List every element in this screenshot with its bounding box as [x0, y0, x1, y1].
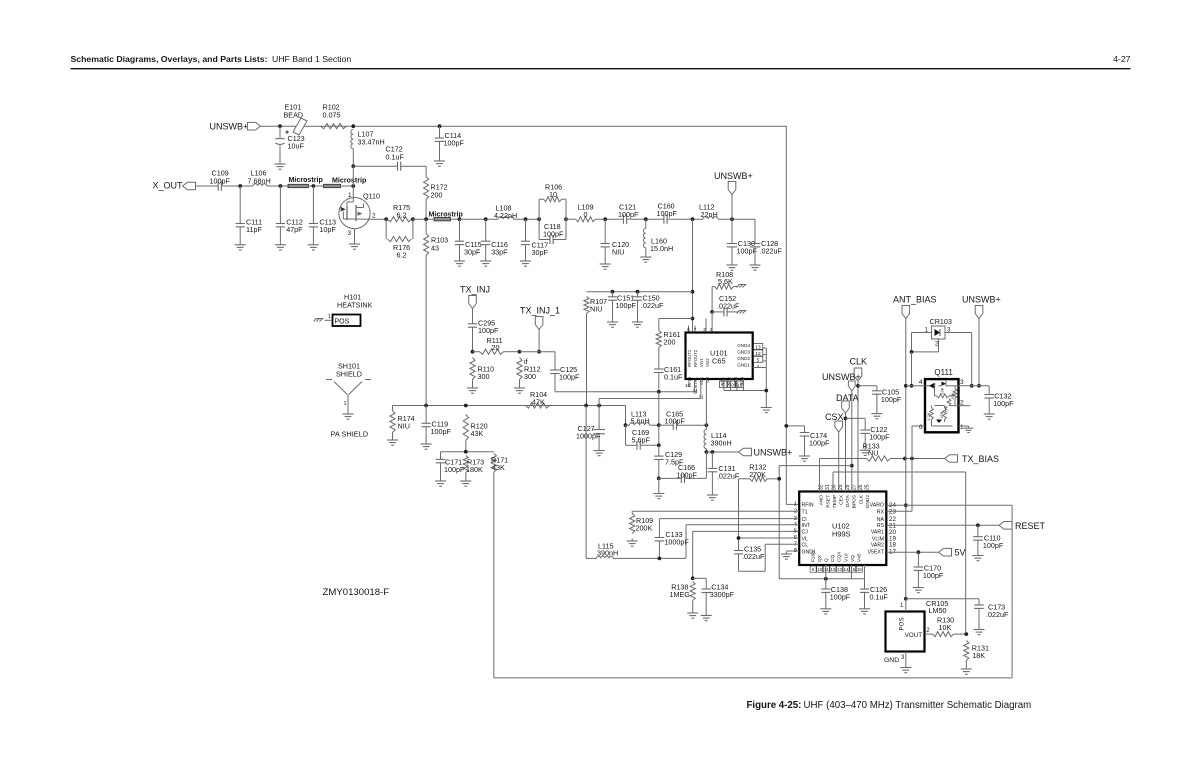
- resistor R173: [463, 456, 468, 479]
- wire TX_BIAS row left: [820, 458, 867, 460]
- svg-text:100pF: 100pF: [444, 465, 465, 474]
- svg-text:0.1uF: 0.1uF: [386, 153, 405, 162]
- junction: [784, 424, 788, 428]
- svg-text:300: 300: [524, 372, 536, 381]
- svg-text:23: 23: [889, 509, 896, 516]
- junction: [737, 536, 741, 540]
- junction: [351, 164, 355, 168]
- header rule: [71, 68, 1131, 70]
- ground C152: [737, 311, 747, 314]
- svg-text:100pF: 100pF: [543, 230, 564, 239]
- wire: [261, 125, 787, 127]
- ground CR105: [900, 665, 911, 673]
- junction: [537, 350, 541, 354]
- wire: [451, 218, 460, 220]
- transistor Q111: [925, 379, 959, 432]
- svg-text:BEAD: BEAD: [284, 111, 304, 120]
- ground C117: [520, 259, 531, 267]
- capacitor C112: [276, 186, 285, 242]
- svg-text:100pF: 100pF: [665, 417, 686, 426]
- svg-text:.022uF: .022uF: [717, 302, 740, 311]
- svg-text:100pF: 100pF: [677, 471, 698, 480]
- svg-text:UHF Band 1 Section: UHF Band 1 Section: [272, 54, 351, 64]
- junction: [524, 217, 528, 221]
- svg-text:1: 1: [960, 424, 964, 431]
- svg-text:Figure 4-25:: Figure 4-25:: [747, 700, 802, 711]
- pin numbers U101 right: [753, 344, 763, 350]
- wire U101 NC pins: [724, 348, 766, 405]
- wire CLK drop: [857, 381, 859, 492]
- svg-text:VD1: VD1: [699, 376, 704, 385]
- svg-text:TX_INJ: TX_INJ: [460, 285, 490, 295]
- svg-text:0.1uF: 0.1uF: [664, 373, 683, 382]
- ground C134: [701, 613, 712, 621]
- svg-text:RFOUT1: RFOUT1: [687, 349, 692, 367]
- wire: [267, 185, 288, 187]
- svg-text:NU: NU: [868, 449, 878, 458]
- node DATA tag: [842, 401, 850, 413]
- capacitor C117: [521, 219, 530, 258]
- wire U101 pin7 stub: [694, 326, 696, 333]
- junction: [624, 423, 628, 427]
- svg-text:RS: RS: [877, 523, 885, 529]
- svg-text:RFIN: RFIN: [802, 503, 814, 509]
- capacitor C105: [872, 386, 882, 411]
- ground C110: [972, 553, 983, 561]
- svg-text:TX_INJ_1: TX_INJ_1: [520, 306, 560, 316]
- node TX_BIAS tag: [945, 455, 958, 463]
- wire VARO row: [886, 504, 1012, 506]
- wire V5EXT row: [886, 551, 938, 553]
- wire CR105 pin3: [905, 652, 907, 666]
- inductor L160 coil: [643, 229, 645, 248]
- microstrip MS2: [324, 177, 367, 188]
- ground C123: [275, 162, 286, 170]
- junction: [977, 384, 981, 388]
- ground C120: [600, 262, 611, 270]
- resistor R138: [690, 582, 695, 611]
- svg-text:5.6K: 5.6K: [718, 277, 733, 286]
- wire: [566, 218, 576, 220]
- svg-text:200: 200: [664, 338, 676, 347]
- junction: [657, 390, 661, 394]
- svg-text:1: 1: [348, 192, 352, 199]
- microstrip MS1: [288, 176, 323, 188]
- wire: [786, 503, 799, 505]
- wire loop left: [493, 472, 495, 678]
- wire: [460, 218, 499, 220]
- svg-text:G2: G2: [705, 376, 710, 382]
- capacitor C150: [633, 292, 642, 320]
- junction: [603, 217, 607, 221]
- junction: [471, 350, 475, 354]
- svg-text:13: 13: [837, 567, 842, 572]
- ground C173: [974, 627, 985, 635]
- junction: [910, 350, 914, 354]
- op-amp U102: [799, 492, 886, 566]
- svg-text:VAR2: VAR2: [871, 543, 884, 549]
- wire: [626, 424, 630, 426]
- resistor R104: [526, 403, 550, 408]
- wire: [587, 291, 693, 293]
- ground C116: [480, 259, 491, 267]
- svg-text:100pF: 100pF: [431, 427, 452, 436]
- capacitor C116: [481, 219, 490, 258]
- node TX_INJ tag: [469, 296, 477, 309]
- resistor R112: [517, 358, 522, 386]
- capacitor C173: [974, 599, 984, 627]
- junction: [691, 217, 695, 221]
- svg-text:H99S: H99S: [832, 530, 851, 539]
- resistor R111: [473, 349, 520, 354]
- transistor Q110: [339, 186, 370, 242]
- junction: [597, 404, 601, 408]
- capacitor C189: [626, 425, 659, 450]
- node UNSWB+ tag L114: [739, 448, 752, 456]
- svg-text:0: 0: [584, 210, 588, 219]
- capacitor C166: [659, 474, 707, 483]
- wire: [685, 525, 687, 559]
- svg-text:3300pF: 3300pF: [710, 590, 735, 599]
- capacitor C113: [309, 186, 318, 242]
- inductor L108: [498, 217, 514, 220]
- svg-text:RESET: RESET: [1015, 521, 1046, 531]
- svg-text:VL: VL: [802, 536, 808, 542]
- ground C114: [434, 159, 445, 167]
- capacitor C132: [984, 386, 994, 412]
- svg-text:3: 3: [710, 327, 713, 332]
- svg-text:200: 200: [431, 191, 443, 200]
- svg-text:43: 43: [431, 244, 439, 253]
- svg-text:27: 27: [851, 484, 857, 490]
- svg-text:20: 20: [492, 343, 500, 352]
- junction: [850, 464, 854, 468]
- wire bias drop to L115: [585, 406, 587, 559]
- svg-text:390nH: 390nH: [597, 549, 618, 558]
- wire rail 391: [555, 391, 695, 393]
- inductor L160: [645, 219, 647, 228]
- svg-text:3: 3: [348, 230, 352, 237]
- svg-text:POS: POS: [899, 617, 906, 630]
- svg-text:CL: CL: [802, 543, 809, 549]
- svg-text:47pF: 47pF: [286, 225, 303, 234]
- svg-text:.022uF: .022uF: [742, 552, 765, 561]
- svg-text:BPOS: BPOS: [852, 495, 858, 508]
- junction: [691, 290, 695, 294]
- svg-text:V5EXT: V5EXT: [868, 549, 885, 555]
- capacitor C171: [436, 452, 446, 479]
- junction: [238, 184, 242, 188]
- svg-text:1: 1: [328, 314, 331, 320]
- pin numbers U102 bottom: [810, 566, 816, 572]
- svg-text:Q110: Q110: [363, 192, 380, 201]
- svg-text:16: 16: [685, 383, 691, 388]
- svg-text:QX: QX: [817, 554, 823, 562]
- junction: [464, 450, 468, 454]
- svg-text:100pF: 100pF: [993, 399, 1014, 408]
- junction: [691, 317, 695, 321]
- inductor L114: [705, 425, 707, 429]
- svg-text:25: 25: [865, 484, 871, 490]
- svg-text:200K: 200K: [636, 524, 653, 533]
- junction: [824, 577, 828, 581]
- junction: [644, 217, 648, 221]
- wire: [700, 379, 702, 399]
- node X_OUT tag: [183, 182, 196, 190]
- resistor R130: [925, 632, 967, 637]
- junction: [904, 503, 908, 507]
- svg-text:16: 16: [857, 567, 862, 572]
- svg-text:CLK: CLK: [850, 356, 868, 366]
- wire BPOS rail: [779, 465, 852, 467]
- wire Q111 pin6: [912, 426, 925, 459]
- svg-text:5V: 5V: [955, 548, 966, 558]
- svg-text:UNSWB+: UNSWB+: [210, 122, 249, 132]
- temperature sensor CR105: [886, 612, 925, 652]
- junction: [279, 184, 283, 188]
- wire: [352, 166, 354, 186]
- junction: [611, 290, 615, 294]
- ground R174: [387, 438, 398, 446]
- junction: [484, 217, 488, 221]
- svg-text:26: 26: [858, 484, 864, 490]
- svg-text:VG1: VG1: [699, 358, 704, 367]
- node UNSWB+ tag mid: [728, 182, 736, 195]
- svg-text:10: 10: [549, 190, 557, 199]
- ground C113: [308, 242, 319, 250]
- svg-text:DATA: DATA: [845, 494, 851, 507]
- svg-text:PA SHIELD: PA SHIELD: [331, 430, 369, 439]
- svg-text:0.075: 0.075: [323, 111, 341, 120]
- junction: [844, 417, 848, 421]
- svg-text:100pF: 100pF: [809, 439, 830, 448]
- junction: [970, 384, 974, 388]
- svg-text:5.6nH: 5.6nH: [631, 417, 650, 426]
- wire: [886, 510, 912, 512]
- svg-text:3: 3: [960, 379, 964, 386]
- svg-text:ZMY0130018-F: ZMY0130018-F: [323, 587, 390, 598]
- svg-text:2: 2: [372, 213, 376, 220]
- wire: [734, 286, 739, 288]
- wire: [308, 185, 323, 187]
- capacitor C115: [455, 219, 464, 258]
- ground Q110: [349, 242, 360, 250]
- inductor L114 coil: [704, 430, 706, 449]
- wire: [352, 149, 354, 167]
- wire: [705, 449, 707, 452]
- node ANT_BIAS tag: [902, 306, 910, 319]
- svg-text:100pF: 100pF: [478, 326, 499, 335]
- wire TEMP rail: [833, 471, 966, 473]
- junction: [903, 457, 907, 461]
- wire RX riser: [911, 459, 913, 512]
- svg-text:CJ: CJ: [802, 530, 809, 536]
- svg-text:100pF: 100pF: [881, 395, 902, 404]
- svg-text:NA: NA: [877, 517, 885, 523]
- ground C129 node: [653, 491, 664, 499]
- junction: [464, 404, 468, 408]
- svg-text:Microstrip: Microstrip: [289, 176, 324, 184]
- capacitor C122: [860, 418, 870, 447]
- wire CSX drop: [838, 432, 840, 492]
- junction: [764, 389, 768, 393]
- svg-text:10: 10: [817, 567, 822, 572]
- resistor R106: [539, 197, 566, 240]
- node RESET tag: [999, 522, 1012, 530]
- resistor R174: [390, 406, 395, 438]
- op-amp U101: [686, 333, 753, 380]
- svg-text:.022uF: .022uF: [717, 472, 740, 481]
- svg-text:30pF: 30pF: [464, 248, 481, 257]
- node UNSWB+ tag right: [975, 306, 983, 319]
- junction: [777, 477, 781, 481]
- svg-text:1: 1: [794, 502, 797, 508]
- svg-text:CQ: CQ: [830, 555, 836, 562]
- ground R112: [514, 386, 525, 394]
- node UNSWB+ tag: [248, 122, 261, 130]
- capacitor C110: [973, 525, 983, 553]
- capacitor C121: [619, 215, 633, 224]
- svg-text:Q: Q: [824, 558, 830, 562]
- junction: [636, 290, 640, 294]
- microstrip MS3: [429, 210, 464, 221]
- svg-text:.022uF: .022uF: [641, 301, 664, 310]
- capacitor C125: [550, 370, 560, 392]
- wire: [659, 318, 693, 320]
- inductor L112: [703, 217, 718, 219]
- svg-text:X_OUT: X_OUT: [153, 180, 184, 190]
- svg-text:100pF: 100pF: [559, 373, 580, 382]
- svg-text:100pF: 100pF: [444, 139, 465, 148]
- svg-text:100pF: 100pF: [737, 247, 758, 256]
- ground U101: [761, 405, 772, 413]
- svg-text:1000pF: 1000pF: [576, 432, 601, 441]
- svg-text:UNSWB+: UNSWB+: [962, 295, 1001, 305]
- wire: [370, 218, 387, 220]
- capacitor C109: [214, 181, 227, 191]
- wire: [514, 218, 540, 220]
- junction: [424, 404, 428, 408]
- wire: [705, 452, 707, 478]
- wire CI rail: [659, 518, 799, 520]
- wire: [891, 458, 945, 460]
- ground R131: [961, 667, 972, 675]
- ground C131: [707, 493, 718, 501]
- svg-text:11pF: 11pF: [246, 225, 262, 234]
- junction: [730, 217, 734, 221]
- ground R138: [687, 611, 698, 619]
- diode CR103: [932, 326, 946, 339]
- svg-text:GND2: GND2: [737, 356, 750, 361]
- svg-text:2: 2: [926, 628, 930, 634]
- ground C119: [421, 442, 432, 450]
- junction: [657, 423, 661, 427]
- svg-text:GND2: GND2: [865, 495, 871, 509]
- inductor L115: [597, 556, 614, 558]
- svg-text:14: 14: [844, 567, 849, 572]
- junction: [710, 310, 714, 314]
- ground C115: [454, 259, 465, 267]
- wire: [227, 185, 254, 187]
- wire: [711, 287, 713, 312]
- svg-text:7.68nH: 7.68nH: [248, 177, 271, 186]
- wire decouple bus: [779, 578, 864, 580]
- svg-text:UNSWB+: UNSWB+: [754, 448, 793, 458]
- capacitor C120: [601, 219, 610, 261]
- junction: [657, 477, 661, 481]
- svg-text:47K: 47K: [940, 411, 944, 418]
- capacitor C170: [914, 552, 924, 585]
- wire to C173: [906, 598, 979, 600]
- capacitor C174: [786, 426, 809, 454]
- svg-text:VOUT: VOUT: [905, 632, 922, 639]
- svg-text:390nH: 390nH: [711, 439, 732, 448]
- svg-text:300: 300: [478, 372, 490, 381]
- svg-text:4-27: 4-27: [1113, 54, 1131, 64]
- svg-text:VAR1: VAR1: [871, 530, 884, 536]
- ground C132: [984, 412, 995, 420]
- svg-text:Schematic Diagrams, Overlays,: Schematic Diagrams, Overlays, and Parts …: [71, 54, 268, 64]
- junction: [705, 450, 709, 454]
- ground C128: [750, 263, 761, 271]
- svg-text:6: 6: [687, 327, 690, 332]
- capacitor C131: [708, 452, 718, 493]
- svg-text:15.0nH: 15.0nH: [650, 244, 673, 253]
- svg-text:1MEG: 1MEG: [670, 590, 691, 599]
- resistor R175: [388, 217, 412, 222]
- svg-text:CEX: CEX: [839, 494, 845, 505]
- junction: [458, 217, 462, 221]
- capacitor C118: [539, 235, 566, 244]
- resistor R176: [386, 219, 413, 241]
- svg-text:12: 12: [830, 567, 835, 572]
- svg-text:33.47nH: 33.47nH: [358, 138, 385, 147]
- wire CR103 pin3: [945, 333, 972, 386]
- wire: [196, 185, 218, 187]
- wire RESET row: [886, 524, 999, 526]
- svg-text:RFOUT2: RFOUT2: [693, 349, 698, 367]
- svg-text:47K: 47K: [951, 392, 955, 399]
- ground C105: [871, 411, 882, 419]
- wire: [858, 385, 877, 387]
- wire ANT pin riser: [819, 459, 821, 492]
- svg-text:T1: T1: [802, 510, 808, 516]
- svg-text:GND3: GND3: [737, 350, 750, 355]
- svg-text:VLIM: VLIM: [872, 536, 884, 542]
- wire RF feed vertical: [785, 126, 787, 504]
- wire: [441, 451, 494, 453]
- wire: [625, 406, 627, 426]
- junction: [705, 423, 709, 427]
- junction: [711, 450, 715, 454]
- svg-text:VQ: VQ: [850, 555, 856, 562]
- ground R173: [460, 479, 471, 487]
- svg-text:NIU: NIU: [612, 248, 624, 257]
- capacitor C126: [860, 579, 869, 607]
- svg-text:VARO: VARO: [870, 503, 884, 509]
- svg-text:4.22nH: 4.22nH: [494, 211, 517, 220]
- svg-text:TEMP: TEMP: [832, 495, 838, 508]
- svg-text:CR103: CR103: [930, 317, 952, 326]
- junction: [657, 443, 661, 447]
- ground R109: [627, 539, 638, 547]
- svg-text:6.2: 6.2: [397, 251, 407, 260]
- wire U101 input drop: [692, 219, 694, 332]
- svg-text:10pF: 10pF: [319, 225, 336, 234]
- capacitor C134: [693, 578, 711, 613]
- wire R132 to VL: [738, 479, 740, 538]
- wire BPOS riser: [778, 466, 780, 579]
